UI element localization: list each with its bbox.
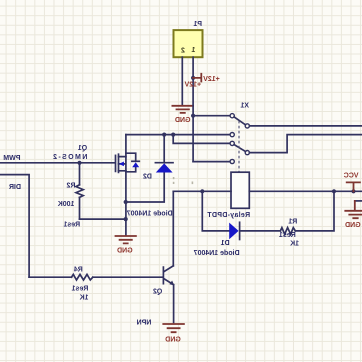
ground GND under source <box>116 236 136 243</box>
svg-text:Res1: Res1 <box>72 285 89 292</box>
wire DIR to R4 <box>29 276 71 278</box>
wire collector <box>172 191 174 265</box>
dashed actuation line <box>238 121 240 172</box>
wire coil left <box>173 190 231 192</box>
junction dot VCC stem <box>351 189 355 193</box>
junction dot +12V tap <box>191 76 195 80</box>
svg-text:Diode 1N4007: Diode 1N4007 <box>194 250 240 257</box>
svg-text:1K: 1K <box>80 294 89 301</box>
pole circle 1 <box>245 124 249 128</box>
wire coil right to VCC and edge <box>249 190 362 192</box>
wire D1 branch down <box>202 191 229 231</box>
contact circle 1 <box>230 114 234 118</box>
wire branch to X1 contact 2 <box>173 135 230 144</box>
wire D1 to R1 <box>241 230 281 232</box>
wire drain net horizontal <box>126 134 230 136</box>
mosfet Q1 NMOS-2 <box>115 155 117 171</box>
junction dot R2/source <box>124 217 128 221</box>
wire source to D2 anode <box>126 173 165 202</box>
wire pole1 to right edge <box>249 125 362 127</box>
junction dot source/D2 <box>124 200 128 204</box>
armature switch 1 <box>234 117 245 125</box>
junction dot branch/drain net <box>171 133 175 137</box>
junction dot R1 branch <box>332 189 336 193</box>
svg-text:GND: GND <box>175 117 191 124</box>
svg-text:Res1: Res1 <box>63 221 80 228</box>
svg-text:+12V: +12V <box>184 82 201 89</box>
svg-text:1: 1 <box>191 47 195 54</box>
svg-text:D2: D2 <box>143 173 152 180</box>
wire R2 bottom to source <box>80 218 126 220</box>
pole circle 2 <box>245 151 249 155</box>
diode D1 <box>229 223 238 240</box>
svg-text:R1: R1 <box>288 218 297 225</box>
transistor Q2 NPN <box>162 267 164 284</box>
junction dot coil/D1 branch <box>200 189 204 193</box>
contact circle 4 <box>230 159 234 163</box>
resistor R4 <box>72 274 93 280</box>
diode D2 <box>156 163 173 172</box>
wire to X1 contact 1 <box>193 115 230 117</box>
wire P1 pin2 down <box>181 57 183 105</box>
power port VCC <box>347 182 360 191</box>
wire P1 pin1 down <box>192 57 194 161</box>
power port +12V <box>193 74 201 82</box>
resistor R1 <box>280 228 295 235</box>
wire GND stub right edge <box>355 200 362 202</box>
ground GND under Q2 <box>163 324 184 332</box>
svg-text:Q1: Q1 <box>78 145 87 152</box>
armature switch 2 <box>234 145 245 152</box>
wire drain up <box>125 135 127 157</box>
junction dot D2/drain net <box>162 133 166 137</box>
svg-text:1K: 1K <box>290 241 299 248</box>
wire to X1 contact 4 <box>193 161 230 163</box>
wire emitter down <box>173 285 175 323</box>
svg-text:NMOS-2: NMOS-2 <box>52 154 88 161</box>
wire PWM input <box>0 162 114 164</box>
svg-text:Diode 1N4007: Diode 1N4007 <box>127 210 173 217</box>
svg-text:Q2: Q2 <box>153 288 162 295</box>
junction dot GND net to X1 <box>191 114 195 118</box>
svg-text:Res1: Res1 <box>279 232 296 239</box>
wire R1 up to coil right net <box>295 191 334 231</box>
svg-text:VCC: VCC <box>344 173 359 180</box>
wire R4 to Q2 base <box>93 276 163 278</box>
relay coil box <box>231 172 249 208</box>
svg-text:NPN: NPN <box>137 320 152 327</box>
svg-text:GND: GND <box>165 337 181 344</box>
svg-text:R4: R4 <box>74 267 83 274</box>
svg-text:DIR: DIR <box>9 184 21 191</box>
svg-text:D1: D1 <box>221 240 230 247</box>
junction dot PWM/R2 <box>77 161 81 165</box>
svg-text:Relay-DPDT: Relay-DPDT <box>207 212 250 219</box>
ground GND right <box>345 201 362 218</box>
svg-text:+12V: +12V <box>203 76 220 83</box>
svg-text:100K: 100K <box>58 201 75 208</box>
contact circle 3 <box>230 141 234 145</box>
resistor R2 <box>79 163 81 185</box>
svg-text:GND: GND <box>345 222 361 229</box>
ground GND under P1 <box>172 106 193 113</box>
svg-text:R2: R2 <box>66 183 75 190</box>
svg-text:2: 2 <box>181 48 185 55</box>
svg-text:P1: P1 <box>193 21 202 28</box>
pin number ghost marks <box>173 177 175 179</box>
connector P1 <box>174 30 203 57</box>
wire source down <box>125 171 127 236</box>
contact circle 2 <box>230 133 234 137</box>
wire DIR input <box>0 175 29 278</box>
svg-text:X1: X1 <box>240 103 249 110</box>
wire pole2 stepped to right edge <box>249 135 362 153</box>
svg-text:GND: GND <box>117 247 133 254</box>
svg-text:PWM: PWM <box>3 155 20 162</box>
